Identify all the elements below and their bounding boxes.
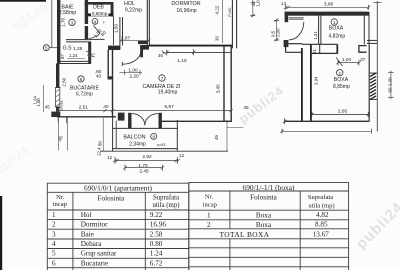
svg-text:4,22: 4,22 <box>215 5 220 14</box>
svg-text:Boxa: Boxa <box>256 221 272 229</box>
wall: camera bottom wall left piece <box>118 113 125 121</box>
vestibule sill line <box>91 38 105 40</box>
svg-text:,40: ,40 <box>102 104 109 109</box>
wall: right stub <box>367 39 377 41</box>
svg-text:Boxa: Boxa <box>256 212 272 220</box>
dim 1,15 under dormitor wall <box>166 49 168 55</box>
svg-text:Nr.: Nr. <box>205 194 214 201</box>
svg-text:Hol: Hol <box>81 211 92 219</box>
svg-text:2,65: 2,65 <box>338 108 348 114</box>
svg-text:3,45: 3,45 <box>215 84 220 93</box>
svg-text:1,50: 1,50 <box>114 24 119 33</box>
svg-text:5: 5 <box>52 250 56 258</box>
svg-text:BALCON: BALCON <box>123 135 145 141</box>
circle 1 + BOXA label <box>331 19 337 25</box>
svg-text:4.82: 4.82 <box>316 211 329 219</box>
svg-text:30: 30 <box>215 36 220 41</box>
svg-text:1.24: 1.24 <box>150 250 163 258</box>
svg-text:incap: incap <box>53 201 68 208</box>
svg-text:7: 7 <box>161 76 164 81</box>
svg-text:3: 3 <box>71 21 74 26</box>
french door right arc <box>145 114 158 126</box>
balcony: left rail <box>112 117 114 152</box>
svg-text:Folosinta: Folosinta <box>250 194 278 202</box>
svg-text:2: 2 <box>52 221 56 229</box>
svg-text:Dormitor: Dormitor <box>81 221 108 229</box>
svg-text:0,90mp: 0,90mp <box>92 11 108 16</box>
svg-text:45: 45 <box>243 105 249 111</box>
shaft line <box>113 16 115 45</box>
svg-text:2,00: 2,00 <box>275 28 280 37</box>
svg-text:0.80: 0.80 <box>150 240 163 248</box>
wall: DEB top wall <box>85 2 114 5</box>
svg-text:2: 2 <box>338 71 341 76</box>
svg-text:1,60: 1,60 <box>36 98 41 107</box>
right dim 1,30 / 60 <box>390 71 392 100</box>
boxa2 right wall inner line <box>368 44 370 121</box>
svg-text:6.72: 6.72 <box>150 260 163 268</box>
circle 6 + label BUCATARIE <box>78 76 84 82</box>
wall: boxa1 right wall <box>363 16 365 45</box>
wall: kitchen right wall upper <box>107 50 109 77</box>
wall: T-stub left <box>288 43 302 45</box>
svg-text:incap: incap <box>203 202 218 209</box>
svg-text:2.58: 2.58 <box>150 230 163 238</box>
circle 5 <box>43 45 49 51</box>
svg-text:12,4: 12,4 <box>97 147 102 156</box>
wall: camera bottom wall right piece <box>162 120 232 122</box>
svg-text:12: 12 <box>179 153 185 158</box>
svg-text:6: 6 <box>52 260 56 268</box>
door: boxa corridor door arc <box>289 22 304 40</box>
svg-text:40: 40 <box>96 74 102 79</box>
balcony bottom dims <box>115 159 178 161</box>
svg-text:51: 51 <box>312 49 317 54</box>
right table frame <box>189 183 349 270</box>
wall: kitchen left wall <box>56 64 59 112</box>
svg-text:690/1/0/1 (apartament): 690/1/0/1 (apartament) <box>84 184 152 193</box>
svg-text:Suprafata: Suprafata <box>153 195 179 202</box>
window: boxa2 window hatched <box>370 73 376 99</box>
svg-text:1,31: 1,31 <box>313 31 318 40</box>
french door left jamb <box>128 113 131 128</box>
svg-text:5,67: 5,67 <box>165 104 175 110</box>
svg-text:6,72mp: 6,72mp <box>76 91 93 97</box>
wall: entry corner stub down <box>140 45 143 57</box>
svg-text:G.S: G.S <box>63 46 72 52</box>
svg-text:87: 87 <box>60 54 65 59</box>
wall: boxa1 left wall <box>318 16 320 45</box>
door: entry door leaf <box>121 62 123 66</box>
svg-text:DEB: DEB <box>93 5 104 11</box>
svg-text:DORMITOR: DORMITOR <box>171 1 200 7</box>
svg-text:3: 3 <box>52 230 56 238</box>
svg-text:utila (mp): utila (mp) <box>153 202 180 209</box>
scan edge artifact top-left <box>0 0 46 2</box>
svg-text:3,94: 3,94 <box>313 76 318 85</box>
svg-text:60: 60 <box>387 87 392 92</box>
wall: DEB bottom wall <box>88 13 114 16</box>
window: kitchen window <box>55 88 60 108</box>
wall: entry wall left of door <box>108 46 120 50</box>
svg-text:14: 14 <box>281 1 286 6</box>
svg-text:1: 1 <box>52 211 56 219</box>
circle 3 <box>69 19 75 25</box>
wall: boxa left wall lower <box>284 40 289 47</box>
outer left face line <box>51 0 53 48</box>
svg-text:Folosinta: Folosinta <box>98 194 126 202</box>
wall: right door jamb <box>359 46 367 53</box>
svg-text:45: 45 <box>45 104 50 109</box>
svg-text:1,30: 1,30 <box>387 77 392 86</box>
svg-text:2: 2 <box>207 221 211 229</box>
wall: DORMITOR bottom wall <box>149 45 232 47</box>
boxa bottom dim lines <box>283 118 286 124</box>
wall: BAIE/G.S. left wall <box>57 0 60 64</box>
svg-text:1: 1 <box>207 212 211 220</box>
svg-text:HOL: HOL <box>124 1 135 7</box>
svg-text:Bucatarie: Bucatarie <box>81 260 109 268</box>
wall: entry wall right of door <box>140 45 149 50</box>
wall: boxa left wall upper <box>285 12 289 23</box>
svg-text:4: 4 <box>52 240 56 248</box>
svg-text:4,82mp: 4,82mp <box>328 33 345 39</box>
svg-text:1,78: 1,78 <box>60 18 65 27</box>
dim line across bottom rooms <box>57 110 231 112</box>
french door left arc <box>132 114 145 126</box>
french door right jamb <box>159 113 162 128</box>
svg-text:s=93: s=93 <box>157 143 165 147</box>
wall: BAIE right wall lower <box>85 26 88 39</box>
balcony: top face line <box>113 127 178 129</box>
svg-text:BOXA: BOXA <box>334 77 349 83</box>
circle 2 + BOXA label <box>337 70 343 76</box>
dim 1,04 / 37 <box>338 62 359 64</box>
svg-text:690/1/-1/1 (boxa): 690/1/-1/1 (boxa) <box>243 183 295 192</box>
svg-text:P=90: P=90 <box>228 8 232 17</box>
wall: G.S. right wall <box>88 42 91 64</box>
svg-text:9.22: 9.22 <box>150 211 163 219</box>
svg-text:9,22mp: 9,22mp <box>125 8 142 14</box>
wall: DEB right wall <box>111 2 114 17</box>
circle 4 <box>92 19 98 25</box>
wall: kitchen right wall lower <box>112 50 114 117</box>
svg-text:utila (mp): utila (mp) <box>308 203 334 210</box>
svg-text:16,96mp: 16,96mp <box>176 8 196 14</box>
svg-text:13.67: 13.67 <box>313 231 330 239</box>
wall: HOL left wall <box>119 17 121 46</box>
boxa top dim line <box>286 6 369 8</box>
svg-text:TOTAL BOXA: TOTAL BOXA <box>219 230 269 239</box>
dim 2,65 <box>312 113 369 115</box>
boxa right wall outer face line <box>376 1 378 132</box>
svg-text:Suprafata: Suprafata <box>308 194 333 201</box>
wall: boxa bottom wall <box>285 120 370 122</box>
svg-text:2,20: 2,20 <box>129 74 139 80</box>
svg-text:12: 12 <box>107 155 113 160</box>
svg-text:1,15: 1,15 <box>177 58 187 64</box>
wall: camera de zi right wall <box>223 46 225 122</box>
svg-text:8,85mp: 8,85mp <box>333 84 350 90</box>
svg-text:2,34mp: 2,34mp <box>129 141 146 147</box>
wall: kitchen bottom wall <box>51 112 60 117</box>
scan edge artifact left-bottom <box>0 196 2 270</box>
svg-text:2,50: 2,50 <box>61 77 66 86</box>
door: vestibule door leaf <box>94 26 101 34</box>
svg-text:2,92: 2,92 <box>142 154 152 160</box>
line: camera de zi top face <box>167 51 232 53</box>
wall: building right wall (dormitor) double line <box>231 0 233 48</box>
left table frame <box>47 183 189 270</box>
wall: BAIE bottom wall <box>66 39 91 41</box>
svg-text:1,05: 1,05 <box>256 0 261 7</box>
svg-text:2,58mp: 2,58mp <box>59 10 76 16</box>
circle 7 + label CAMERA DE ZI <box>159 75 165 81</box>
wall: HOL/DORMITOR divider <box>146 0 148 45</box>
door: boxa2 door leaf diag <box>336 58 342 67</box>
door: boxa corridor door leaf <box>289 17 304 19</box>
svg-text:19,40mp: 19,40mp <box>158 90 178 96</box>
svg-text:Debara: Debara <box>81 240 103 248</box>
svg-text:16.96: 16.96 <box>150 221 167 229</box>
svg-text:80: 80 <box>98 141 103 146</box>
svg-text:37: 37 <box>360 57 366 63</box>
svg-text:1,70: 1,70 <box>138 163 148 169</box>
door: entry door arc <box>122 51 141 64</box>
wall: G.S. bottom wall <box>57 60 91 62</box>
wall: BAIE right wall upper <box>85 0 88 24</box>
svg-text:+: + <box>103 20 106 25</box>
svg-text:1,28: 1,28 <box>73 46 83 52</box>
svg-text:1: 1 <box>333 20 336 25</box>
svg-text:Grup sanitar: Grup sanitar <box>81 250 117 258</box>
wall: boxa top wall <box>285 12 369 16</box>
svg-text:8.85: 8.85 <box>315 220 328 228</box>
svg-text:1,04: 1,04 <box>342 57 352 63</box>
wall: HOL bottom lintel <box>138 41 148 44</box>
balcony: bottom rail double <box>113 148 178 150</box>
balcony: right rail <box>176 120 178 152</box>
svg-text:Baie: Baie <box>81 230 94 238</box>
svg-text:P=94: P=94 <box>60 101 64 110</box>
wall: corridor right wall <box>301 48 303 121</box>
svg-text:BOXA: BOXA <box>329 26 344 32</box>
svg-text:Nr.: Nr. <box>56 194 65 201</box>
svg-text:35: 35 <box>158 53 163 58</box>
wall: boxa1 bottom wall <box>302 43 337 45</box>
svg-text:2,45: 2,45 <box>139 169 149 175</box>
svg-text:1,24: 1,24 <box>69 53 78 58</box>
svg-text:45: 45 <box>214 134 219 140</box>
svg-text:2,51: 2,51 <box>79 105 89 111</box>
svg-text:3,68: 3,68 <box>324 2 334 8</box>
svg-text:6: 6 <box>80 77 83 82</box>
